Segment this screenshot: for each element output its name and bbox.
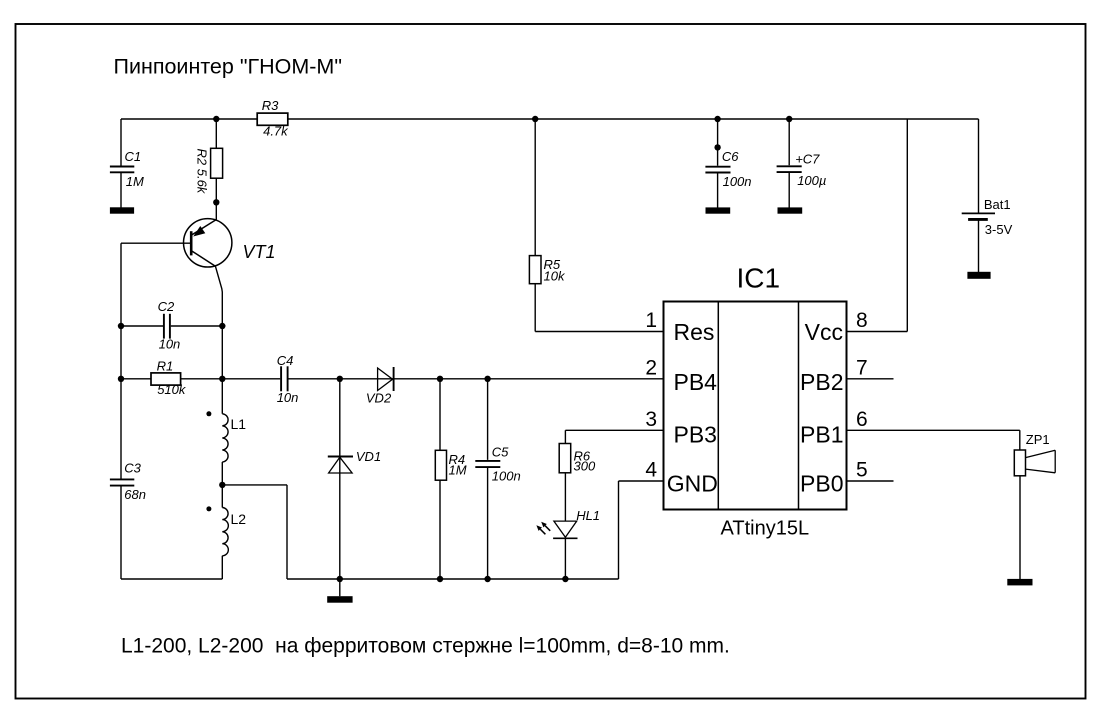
- wire: R5 branch to pin1: [535, 119, 663, 332]
- title: [114, 55, 342, 79]
- transistor VT1: [184, 219, 276, 267]
- svg-text:C4: C4: [277, 353, 294, 368]
- ground (ZP1): [1007, 579, 1032, 586]
- svg-text:10k: 10k: [544, 268, 566, 283]
- svg-text:8: 8: [856, 309, 868, 332]
- wire: ZP1 to ground: [1019, 476, 1021, 579]
- IC U1 box: [664, 263, 847, 540]
- svg-text:4: 4: [645, 459, 657, 482]
- resistor R3: [257, 98, 289, 139]
- battery Bat1: [962, 197, 1013, 237]
- pin 7 PB2: [800, 356, 868, 395]
- svg-text:L1-200, L2-200 на ферритовом: L1-200, L2-200 на ферритовом стержне l=1…: [121, 634, 730, 657]
- junction: C5 top: [484, 376, 490, 382]
- ground (Bat1): [967, 272, 990, 279]
- junction: VD1 top: [337, 376, 343, 382]
- svg-text:68n: 68n: [124, 487, 146, 502]
- junction: R4 top: [437, 376, 443, 382]
- svg-text:VD2: VD2: [366, 391, 392, 406]
- wire: VD1 branch: [339, 379, 341, 596]
- svg-text:PB3: PB3: [674, 422, 717, 448]
- pin 2 PB4: [645, 356, 717, 395]
- svg-text:VT1: VT1: [243, 242, 276, 262]
- wire: R1/C4/VD2/PB4 net: [121, 378, 664, 380]
- svg-text:300: 300: [574, 458, 596, 473]
- diode VD1: [328, 449, 381, 473]
- ground (C6): [706, 207, 731, 213]
- junction: HL1 bottom rail: [562, 576, 568, 582]
- svg-text:1M: 1M: [449, 463, 467, 478]
- svg-text:1M: 1M: [126, 174, 144, 189]
- capacitor C7: [777, 152, 827, 188]
- svg-text:PB4: PB4: [674, 369, 718, 395]
- svg-text:PB0: PB0: [800, 471, 843, 497]
- svg-text:Пинпоинтер "ГНОМ-М": Пинпоинтер "ГНОМ-М": [114, 55, 342, 79]
- svg-text:IC1: IC1: [737, 263, 781, 294]
- svg-text:L1: L1: [231, 416, 247, 432]
- svg-text:3-5V: 3-5V: [985, 222, 1013, 237]
- svg-text:VD1: VD1: [356, 449, 381, 464]
- wire: Vcc pin8: [847, 119, 908, 332]
- pin 1 Res: [645, 309, 714, 345]
- svg-text:3: 3: [645, 408, 657, 431]
- resistor R1: [151, 358, 187, 397]
- svg-text:ZP1: ZP1: [1026, 432, 1050, 447]
- pin 4 GND: [645, 459, 718, 497]
- svg-text:C2: C2: [158, 299, 175, 314]
- svg-text:7: 7: [856, 356, 868, 379]
- wire: C6 branch: [717, 119, 719, 208]
- junction: C2 right: [219, 323, 225, 329]
- junction: C6 stem dot: [714, 144, 720, 150]
- svg-text:C1: C1: [125, 149, 142, 164]
- junction: R1 left: [118, 376, 124, 382]
- diode VD2: [366, 367, 394, 406]
- wire: pin3 to R6: [565, 430, 663, 443]
- wire: Bat1 drop: [978, 119, 980, 213]
- svg-text:Res: Res: [674, 319, 715, 345]
- wire: bottom ground rail: [287, 578, 619, 580]
- wire: Bat1 to ground: [978, 220, 980, 272]
- svg-text:C3: C3: [124, 461, 141, 476]
- wire: R6 to HL1: [564, 473, 566, 521]
- svg-text:1: 1: [645, 309, 657, 332]
- svg-text:L2: L2: [231, 511, 247, 527]
- svg-text:C5: C5: [492, 445, 509, 460]
- capacitor C4: [277, 353, 299, 405]
- wire: pin5 stub: [847, 480, 894, 482]
- wire: VT1 emitter vertical: [215, 202, 217, 220]
- capacitor C2: [158, 299, 181, 352]
- pin 6 PB1: [800, 408, 868, 448]
- svg-text:R3: R3: [262, 98, 279, 113]
- svg-text:100n: 100n: [723, 174, 752, 189]
- wire: left rail (base to C3 to bottom): [121, 243, 222, 579]
- ground (C1): [110, 207, 134, 213]
- wire: VT1 collector lead down: [215, 266, 222, 414]
- svg-text:PB2: PB2: [800, 369, 843, 395]
- wire: C7 branch: [788, 119, 790, 208]
- junction: R2 bottom / emitter: [213, 199, 219, 205]
- resistor R4: [435, 450, 466, 480]
- wire: +V top rail: [121, 118, 979, 120]
- svg-text:GND: GND: [667, 471, 718, 497]
- svg-text:Vcc: Vcc: [805, 319, 843, 345]
- svg-text:6: 6: [856, 408, 868, 431]
- wire: pin7 stub: [847, 378, 894, 380]
- svg-text:R2 5.6k: R2 5.6k: [195, 149, 210, 195]
- wire: C2 net: [121, 325, 222, 327]
- capacitor C6: [705, 149, 751, 189]
- junction: C2 left: [118, 323, 124, 329]
- pin 3 PB3: [645, 408, 717, 448]
- svg-text:10n: 10n: [277, 390, 299, 405]
- svg-text:2: 2: [645, 356, 657, 379]
- svg-text:10n: 10n: [159, 337, 181, 352]
- note text: [121, 634, 730, 657]
- wire: C1 branch: [120, 119, 122, 208]
- junction: top rail at C6: [714, 116, 720, 122]
- junction: R1 right: [219, 376, 225, 382]
- ground (bottom rail): [327, 596, 352, 603]
- junction: top rail at R2: [213, 116, 219, 122]
- junction: R4 bottom rail: [437, 576, 443, 582]
- resistor R2: [195, 148, 223, 195]
- inductor L2: [206, 506, 246, 555]
- svg-text:100µ: 100µ: [797, 173, 826, 188]
- svg-text:Bat1: Bat1: [984, 197, 1011, 212]
- wire: HL1 to ground rail: [564, 538, 566, 579]
- capacitor C5: [475, 445, 520, 484]
- wire: VT1 base: [121, 242, 190, 244]
- svg-text:R1: R1: [157, 358, 174, 373]
- svg-text:510k: 510k: [157, 382, 187, 397]
- svg-text:ATtiny15L: ATtiny15L: [721, 518, 810, 540]
- wire: L1-L2 tap: [222, 462, 287, 579]
- wire: pin6 to ZP1: [847, 430, 1020, 450]
- wire: pin4 GND return: [619, 481, 664, 579]
- svg-text:PB1: PB1: [800, 422, 843, 448]
- LED HL1: [536, 508, 600, 539]
- pin 8 Vcc: [805, 309, 868, 345]
- wire: C5 branch: [487, 379, 489, 579]
- resistor R5: [529, 256, 566, 284]
- inductor L1: [206, 411, 246, 462]
- svg-text:C6: C6: [722, 149, 739, 164]
- junction: C5 bottom rail: [484, 576, 490, 582]
- svg-text:+C7: +C7: [795, 152, 820, 167]
- svg-text:HL1: HL1: [576, 508, 600, 523]
- capacitor C1: [110, 149, 144, 189]
- wire: R2 leads: [215, 119, 217, 202]
- junction: VD1 bottom rail: [337, 576, 343, 582]
- pin 5 PB0: [800, 459, 868, 497]
- svg-text:5: 5: [856, 459, 868, 482]
- buzzer ZP1: [1014, 432, 1055, 476]
- junction: top rail at R5: [532, 116, 538, 122]
- svg-text:4.7k: 4.7k: [263, 124, 289, 139]
- svg-text:100n: 100n: [492, 469, 521, 484]
- resistor R6: [559, 444, 596, 474]
- wire: R4 branch: [439, 379, 441, 579]
- junction: L1/L2 tap: [219, 482, 225, 488]
- ground (C7): [778, 207, 803, 213]
- junction: top rail at C7: [786, 116, 792, 122]
- capacitor C3: [110, 461, 146, 503]
